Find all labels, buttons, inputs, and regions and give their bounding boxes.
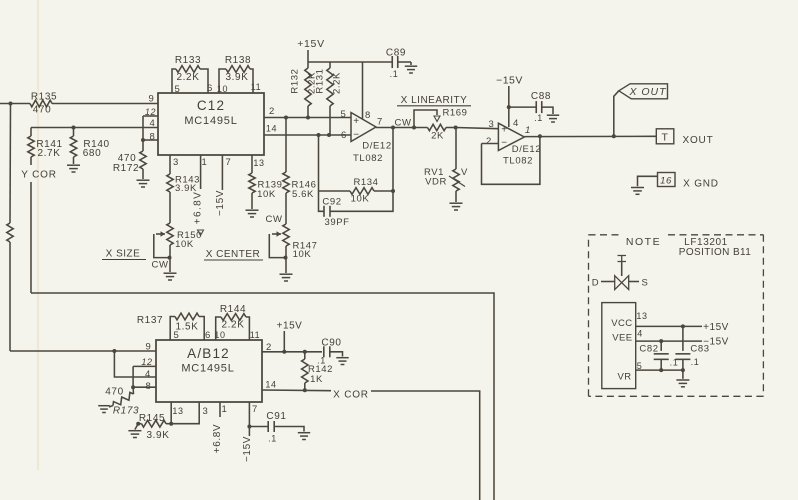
pin 11 <box>250 330 261 340</box>
svg-text:MC1495L: MC1495L <box>184 115 237 127</box>
svg-text:4: 4 <box>637 329 643 339</box>
wire <box>133 366 156 387</box>
ground <box>137 180 150 187</box>
node <box>454 126 458 130</box>
svg-text:10K: 10K <box>293 249 312 260</box>
wire <box>248 402 250 436</box>
svg-text:7: 7 <box>252 404 258 415</box>
wire <box>318 135 320 191</box>
wire <box>143 139 158 141</box>
wire <box>362 62 364 119</box>
svg-text:D: D <box>592 278 599 289</box>
svg-text:39PF: 39PF <box>324 217 349 228</box>
svg-text:+15V: +15V <box>703 322 729 333</box>
wire <box>524 135 656 137</box>
pin 5 <box>175 84 181 95</box>
svg-text:CW: CW <box>265 214 282 225</box>
svg-text:9: 9 <box>149 94 155 105</box>
net CW <box>394 118 411 129</box>
node <box>507 105 511 109</box>
node <box>282 350 286 354</box>
svg-text:TL082: TL082 <box>353 153 383 164</box>
node <box>303 388 307 392</box>
svg-text:+6.8V: +6.8V <box>212 424 223 453</box>
svg-text:C88: C88 <box>531 91 551 102</box>
svg-text:12: 12 <box>141 357 152 367</box>
svg-text:2.2K: 2.2K <box>177 72 200 83</box>
pin 14 <box>266 124 277 134</box>
pin 1 <box>202 157 208 168</box>
wire <box>482 143 499 145</box>
svg-text:1: 1 <box>222 404 228 415</box>
pin 4 <box>637 329 643 339</box>
svg-text:R144: R144 <box>220 304 246 315</box>
wire <box>109 406 113 408</box>
resistor R144 <box>216 304 250 340</box>
wire <box>614 91 619 137</box>
resistor R138 <box>219 55 253 93</box>
svg-text:R134: R134 <box>353 177 378 188</box>
node <box>327 133 331 137</box>
svg-text:470: 470 <box>105 387 124 398</box>
svg-text:13: 13 <box>636 311 647 321</box>
pin 14 <box>265 380 276 390</box>
pin 1 <box>222 404 228 415</box>
ground <box>67 165 80 172</box>
svg-text:C12: C12 <box>197 98 225 113</box>
wire <box>371 391 480 500</box>
node <box>169 422 173 426</box>
connector T <box>656 129 674 144</box>
wire <box>636 369 683 371</box>
pin 13 <box>636 311 647 321</box>
svg-text:2.2K: 2.2K <box>222 320 245 331</box>
wire <box>285 258 287 273</box>
svg-text:10K: 10K <box>175 239 194 250</box>
svg-text:TL082: TL082 <box>503 156 533 167</box>
svg-text:2: 2 <box>269 106 275 117</box>
ground <box>298 433 310 440</box>
svg-text:D/E12: D/E12 <box>362 141 391 152</box>
transistor Q1 (LF13201 switch) <box>592 256 649 290</box>
svg-text:470: 470 <box>33 105 52 116</box>
svg-text:−15V: −15V <box>215 190 226 216</box>
ground <box>98 406 110 413</box>
resistor R146 <box>283 118 317 225</box>
resistor (unlabeled) <box>7 223 13 242</box>
node <box>306 116 310 120</box>
note text <box>626 236 751 258</box>
wire <box>30 182 32 293</box>
svg-text:C83: C83 <box>690 344 709 355</box>
svg-text:R137: R137 <box>137 315 163 326</box>
wire <box>52 103 158 105</box>
node <box>112 349 116 353</box>
pin 6 <box>207 83 213 94</box>
op-amp U1 <box>341 109 392 164</box>
svg-text:VEE: VEE <box>612 333 632 344</box>
wire <box>170 402 172 424</box>
pin 4 <box>150 118 156 129</box>
node <box>412 126 416 130</box>
pin 13 <box>172 406 183 416</box>
resistor R140 <box>70 128 109 165</box>
net +15V <box>277 321 303 352</box>
node <box>659 339 663 343</box>
wire <box>171 402 199 424</box>
ground <box>450 203 463 210</box>
svg-text:1: 1 <box>525 125 531 136</box>
wire <box>392 128 394 192</box>
svg-text:.1: .1 <box>390 69 399 79</box>
svg-text:XOUT: XOUT <box>683 135 714 146</box>
svg-text:R132: R132 <box>290 68 301 93</box>
svg-text:R135: R135 <box>31 92 57 103</box>
net +6.8V <box>212 402 223 453</box>
wire <box>262 351 322 353</box>
pin 8 <box>150 132 156 143</box>
svg-text:VCC: VCC <box>611 318 632 329</box>
svg-text:R169: R169 <box>442 108 467 119</box>
net X COR <box>333 390 369 401</box>
svg-text:2.7K: 2.7K <box>38 148 61 159</box>
connector X OUT flag <box>619 84 668 99</box>
potentiometer R169 <box>414 108 468 142</box>
node Y COR <box>21 170 57 181</box>
svg-text:VDR: VDR <box>425 177 447 188</box>
svg-text:.1: .1 <box>534 113 543 123</box>
node pin8 junction <box>141 138 145 142</box>
wire <box>169 258 171 272</box>
op-amp U2 <box>486 118 541 167</box>
svg-text:MC1495L: MC1495L <box>181 363 234 375</box>
node <box>681 324 685 328</box>
resistor R131 <box>315 62 343 135</box>
svg-text:POSITION B11: POSITION B11 <box>679 247 751 258</box>
svg-text:5.6K: 5.6K <box>292 189 314 200</box>
net XOUT <box>683 135 714 146</box>
svg-text:A/B12: A/B12 <box>187 346 230 361</box>
IC U3 <box>602 303 636 389</box>
svg-text:CW: CW <box>394 118 411 129</box>
pin 10 <box>217 84 228 94</box>
svg-text:14: 14 <box>266 124 277 134</box>
potentiometer R150 <box>154 223 202 258</box>
svg-text:10K: 10K <box>257 189 276 200</box>
net CW <box>151 260 168 271</box>
svg-text:R172: R172 <box>113 163 139 174</box>
svg-text:7: 7 <box>226 157 232 168</box>
svg-text:3: 3 <box>489 119 495 130</box>
svg-text:R173: R173 <box>113 406 139 417</box>
svg-text:8: 8 <box>146 381 152 392</box>
IC C12 <box>158 93 264 155</box>
net -15V <box>215 155 226 216</box>
wire <box>636 325 702 327</box>
note box <box>589 235 764 396</box>
svg-text:13: 13 <box>172 406 183 416</box>
wire <box>636 340 702 342</box>
potentiometer R147 <box>269 224 317 260</box>
resistor R145 <box>138 413 171 441</box>
pin 9 <box>149 94 155 105</box>
svg-text:8: 8 <box>365 110 371 121</box>
wire <box>142 116 144 140</box>
resistor R137 <box>137 313 204 340</box>
svg-text:−: − <box>501 138 507 149</box>
wire <box>376 127 428 129</box>
svg-text:+: + <box>353 116 359 127</box>
node <box>538 134 542 138</box>
svg-text:X CENTER: X CENTER <box>206 249 261 260</box>
pin 12 <box>145 107 156 117</box>
wire <box>264 134 351 136</box>
svg-text:+15V: +15V <box>297 38 325 50</box>
svg-text:Y COR: Y COR <box>21 170 57 181</box>
svg-text:−15V: −15V <box>242 436 253 462</box>
net +15V <box>297 38 325 62</box>
pin 5 <box>174 330 180 341</box>
wire <box>262 389 331 392</box>
resistor R142 <box>302 352 333 390</box>
svg-text:VR: VR <box>618 372 632 383</box>
svg-text:1: 1 <box>202 157 208 168</box>
net X SIZE <box>102 249 146 260</box>
ground <box>128 431 141 438</box>
capacitor C90 <box>317 338 342 366</box>
wire <box>456 128 499 129</box>
svg-text:C92: C92 <box>322 197 341 208</box>
node <box>136 422 140 426</box>
capacitor C91 <box>249 411 304 444</box>
node <box>284 116 288 120</box>
wire <box>9 104 12 224</box>
svg-text:CW: CW <box>151 260 168 271</box>
net -15V <box>242 436 253 462</box>
svg-text:D/E12: D/E12 <box>512 144 541 155</box>
pin 11 <box>251 82 262 92</box>
svg-text:3.9K: 3.9K <box>226 72 249 83</box>
node <box>317 133 321 137</box>
svg-text:R133: R133 <box>175 55 201 66</box>
svg-text:C89: C89 <box>386 48 406 59</box>
pin 4 <box>145 369 151 380</box>
svg-text:T: T <box>661 132 668 144</box>
net X LINEARITY <box>397 95 471 106</box>
svg-text:680: 680 <box>83 148 102 159</box>
ground <box>405 66 417 73</box>
wire <box>133 365 156 367</box>
ground <box>246 210 259 217</box>
svg-text:S: S <box>642 278 649 289</box>
pin 7 <box>252 404 258 415</box>
wire <box>143 115 158 117</box>
svg-text:1K: 1K <box>310 374 323 385</box>
node <box>391 126 395 130</box>
svg-text:X COR: X COR <box>333 390 369 401</box>
wire <box>135 424 138 430</box>
node <box>681 368 685 372</box>
svg-text:X OUT: X OUT <box>628 86 667 98</box>
svg-text:2K: 2K <box>431 131 444 142</box>
resistor R133 <box>172 55 208 93</box>
node <box>284 256 288 260</box>
wire <box>114 351 156 377</box>
node <box>659 368 663 372</box>
wire <box>264 117 351 119</box>
svg-text:16: 16 <box>660 176 672 187</box>
ground <box>547 115 559 122</box>
node A <box>9 102 13 106</box>
svg-text:6: 6 <box>341 130 347 141</box>
svg-text:3: 3 <box>203 406 209 417</box>
svg-text:X SIZE: X SIZE <box>106 249 141 260</box>
pin 6 <box>205 330 211 341</box>
pin 7 <box>226 157 232 168</box>
svg-text:11: 11 <box>250 330 261 340</box>
pin 3 <box>173 157 179 168</box>
pin 2 <box>266 342 272 353</box>
svg-text:3: 3 <box>173 157 179 168</box>
svg-text:−: − <box>353 130 359 141</box>
wire <box>31 127 158 129</box>
svg-text:+6.8V: +6.8V <box>193 191 204 224</box>
node <box>391 189 395 193</box>
resistor R134 <box>319 177 394 205</box>
resistor R132 <box>290 62 318 118</box>
svg-text:5: 5 <box>341 109 347 120</box>
resistor R172 <box>113 140 146 179</box>
svg-text:8: 8 <box>150 132 156 143</box>
svg-text:X LINEARITY: X LINEARITY <box>401 95 468 106</box>
resistor R141 <box>28 128 63 166</box>
ground <box>164 273 177 280</box>
pin 13 <box>253 158 264 168</box>
capacitor C89 <box>386 48 411 80</box>
node <box>168 256 172 260</box>
svg-text:NOTE: NOTE <box>626 236 661 248</box>
wire <box>132 387 134 394</box>
net X CENTER <box>204 249 263 260</box>
svg-text:2: 2 <box>486 136 492 147</box>
capacitor C83 <box>675 326 709 370</box>
ground <box>280 274 293 281</box>
pin 12 <box>141 357 152 367</box>
net +15V <box>703 322 729 333</box>
IC A/B12 <box>156 340 262 402</box>
wire <box>9 242 11 351</box>
svg-text:14: 14 <box>265 380 276 390</box>
svg-text:−15V: −15V <box>496 75 523 87</box>
svg-text:5: 5 <box>175 84 181 95</box>
pin 8 <box>146 381 152 392</box>
svg-text:10K: 10K <box>351 194 370 205</box>
connector 16 <box>658 173 676 187</box>
svg-text:2.2K: 2.2K <box>332 72 343 94</box>
net X GND <box>683 179 719 190</box>
svg-text:6: 6 <box>205 330 211 341</box>
svg-text:R131: R131 <box>315 68 326 93</box>
wire <box>682 370 684 379</box>
ground <box>631 188 644 195</box>
wire <box>37 0 39 470</box>
net CW <box>265 214 282 225</box>
node <box>131 385 135 389</box>
wire <box>31 293 494 500</box>
svg-text:1.5K: 1.5K <box>176 322 199 333</box>
pin 2 <box>269 106 275 117</box>
svg-text:C82: C82 <box>639 344 658 355</box>
svg-text:9: 9 <box>146 342 152 353</box>
svg-text:C91: C91 <box>266 411 286 422</box>
resistor R135 <box>30 92 57 116</box>
wire <box>482 136 540 184</box>
resistor R139 <box>249 155 283 209</box>
net +6.8V <box>193 155 204 236</box>
capacitor C88 <box>509 91 553 123</box>
node R140 junction <box>72 126 76 130</box>
pin 9 <box>146 342 152 353</box>
wire <box>0 103 30 105</box>
svg-text:R145: R145 <box>139 413 165 424</box>
ground <box>336 358 348 365</box>
pin 3 <box>203 406 209 417</box>
node <box>303 350 307 354</box>
resistor R143 <box>167 155 200 223</box>
resistor R173 <box>105 387 139 417</box>
wire <box>638 176 658 186</box>
svg-text:R138: R138 <box>225 55 251 66</box>
svg-text:3.9K: 3.9K <box>147 430 170 441</box>
svg-text:13: 13 <box>253 158 264 168</box>
svg-text:+: + <box>501 125 507 136</box>
wire <box>10 350 156 352</box>
svg-text:V: V <box>461 167 468 178</box>
pin 5 <box>637 361 643 371</box>
node <box>612 134 616 138</box>
capacitor C82 <box>639 341 678 370</box>
svg-text:7: 7 <box>377 117 383 128</box>
svg-text:4: 4 <box>513 118 519 129</box>
capacitor C92 <box>319 191 394 228</box>
pin 10 <box>214 330 225 340</box>
wire <box>308 61 392 63</box>
ground <box>676 380 689 387</box>
net -15V <box>496 75 523 128</box>
svg-text:.1: .1 <box>691 357 700 367</box>
varistor RV1 <box>424 128 468 203</box>
svg-text:4: 4 <box>145 369 151 380</box>
node <box>247 425 251 429</box>
svg-text:.1: .1 <box>268 434 277 444</box>
net -15V <box>703 337 729 348</box>
svg-text:X GND: X GND <box>683 179 719 190</box>
svg-text:+15V: +15V <box>277 321 303 332</box>
